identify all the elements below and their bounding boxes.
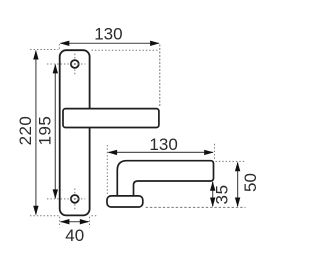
dimension line 130 side (108, 150, 214, 155)
dimension line 130 top (60, 41, 160, 46)
extension line grip top right (216, 160, 246, 162)
extension line plate bottom left (30, 215, 59, 217)
extension line below plate right (89, 217, 91, 227)
dimension line 220 (33, 50, 38, 215)
svg-text:195: 195 (36, 116, 55, 146)
screw hole top (71, 60, 79, 68)
extension line side right vertical (214, 144, 216, 160)
lever handle (side view) (117, 161, 213, 197)
extension line hole bottom centerline (47, 198, 85, 200)
svg-text:220: 220 (16, 116, 35, 146)
svg-text:130: 130 (149, 135, 177, 154)
svg-text:35: 35 (212, 184, 231, 204)
extension line rose bottom right (146, 206, 246, 208)
extension line plate top left (30, 49, 58, 51)
extension line plate bottom right stub (92, 215, 98, 217)
rose / escutcheon (side view) (107, 196, 143, 207)
extension line hole top centerline (47, 63, 85, 65)
extension line top-left vertical (58, 44, 60, 49)
backplate (front view) (60, 50, 90, 215)
extension line top-right vertical (to lever end) (159, 45, 161, 108)
dimension line 195 (53, 64, 58, 199)
dimension line 50 (235, 162, 240, 207)
centerline marks hole bottom (74, 189, 76, 210)
extension line side left vertical (106, 145, 108, 195)
extension line below plate left (59, 217, 61, 227)
svg-text:130: 130 (94, 24, 122, 43)
screw hole bottom (71, 195, 79, 203)
extension line plate top right (92, 49, 160, 51)
dimension line 35 (210, 181, 215, 207)
centerline marks hole top (74, 54, 76, 75)
dimension line 40 (60, 219, 89, 224)
lever handle (front view) (63, 109, 159, 128)
svg-text:50: 50 (241, 173, 260, 192)
svg-text:40: 40 (65, 226, 84, 245)
